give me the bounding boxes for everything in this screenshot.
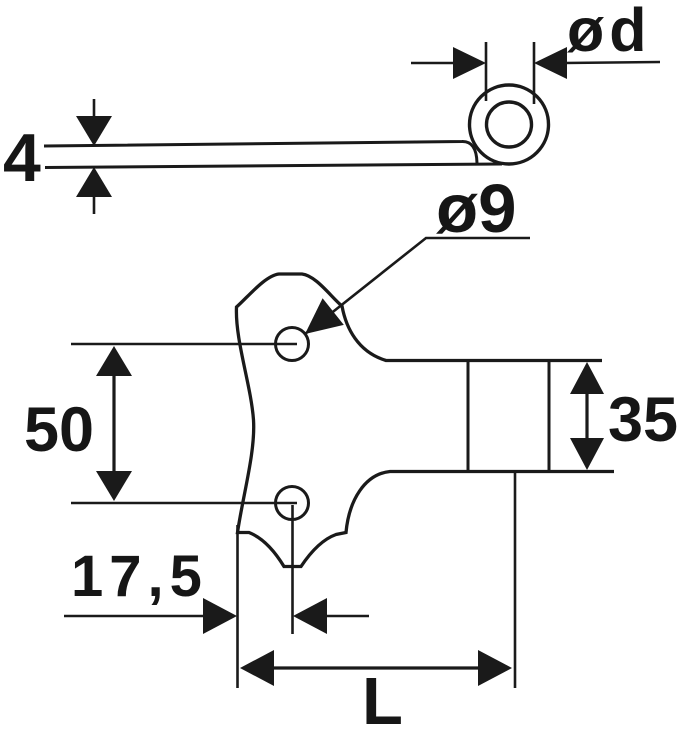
plate outline bbox=[236, 274, 614, 567]
dim 4 arrow bottom bbox=[76, 167, 112, 197]
dim ød arrow left bbox=[453, 47, 486, 79]
dim 17,5 arrow right bbox=[293, 598, 327, 634]
lower hole centerline bbox=[291, 505, 294, 634]
dim L arrow left bbox=[240, 650, 274, 686]
dim 35 arrow bottom bbox=[570, 438, 604, 470]
dim ød arrow right bbox=[534, 47, 567, 79]
svg-text:4: 4 bbox=[3, 120, 41, 196]
dim 4 line top bbox=[93, 99, 96, 116]
dim 50 extension bottom bbox=[71, 502, 297, 505]
svg-text:35: 35 bbox=[608, 385, 678, 455]
dim 50 arrow top bbox=[96, 346, 132, 376]
rod top edge bbox=[44, 141, 477, 163]
svg-text:17,5: 17,5 bbox=[71, 544, 208, 609]
dim L line bbox=[244, 666, 508, 669]
loop outer circle bbox=[470, 85, 549, 164]
dim 35 arrow top bbox=[570, 362, 604, 394]
svg-text:ø9: ø9 bbox=[436, 170, 517, 247]
dim ød line right bbox=[564, 62, 660, 63]
loop inner circle bbox=[487, 102, 532, 147]
plate left edge extension line bbox=[236, 525, 239, 688]
svg-text:L: L bbox=[362, 664, 403, 729]
svg-text:ød: ød bbox=[567, 0, 652, 64]
dim 50 extension top bbox=[71, 343, 297, 346]
L right extension line bbox=[514, 473, 517, 688]
dim 50 arrow bottom bbox=[96, 471, 132, 501]
dim ød extension line right bbox=[533, 42, 536, 104]
leader ø9 underline bbox=[305, 238, 530, 334]
dim ød extension line left bbox=[485, 42, 488, 101]
dim L arrow right bbox=[478, 650, 512, 686]
dim 35 line bbox=[585, 366, 588, 466]
dim 50 line bbox=[112, 350, 115, 497]
rod bottom edge bbox=[45, 164, 502, 168]
dim 17,5 arrow left bbox=[203, 598, 237, 634]
arm break line left bbox=[467, 361, 470, 472]
dim 4 arrow top bbox=[76, 116, 112, 146]
dim 17,5 line left bbox=[64, 615, 210, 618]
dim ød line left bbox=[411, 62, 455, 65]
upper hole ø9 bbox=[276, 328, 309, 361]
lower hole ø9 bbox=[276, 487, 309, 520]
dim 17,5 line right bbox=[322, 615, 369, 618]
arm break line right bbox=[548, 361, 551, 472]
dim 4 line bottom bbox=[93, 197, 96, 214]
svg-text:50: 50 bbox=[24, 395, 94, 465]
leader ø9 arrowhead bbox=[305, 298, 344, 334]
